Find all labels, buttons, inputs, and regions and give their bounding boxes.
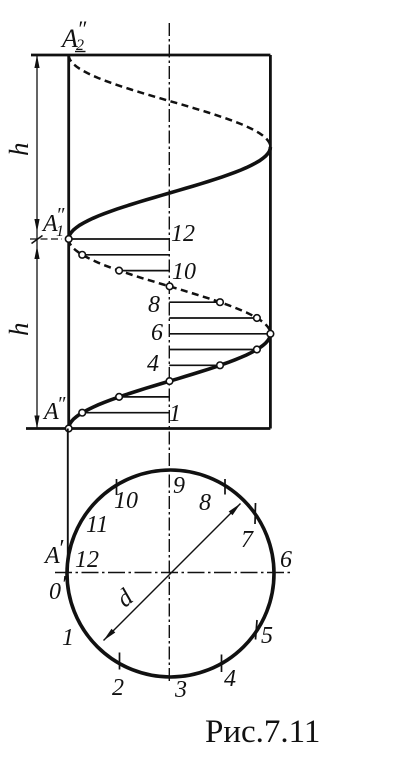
diameter d arrow [104,504,241,641]
svg-text:8: 8 [148,292,160,318]
arrowhead junction down [34,219,39,232]
projection line row 7 [169,317,257,319]
svg-text:1: 1 [62,625,74,651]
node point 12 [65,236,72,243]
arrowhead top [34,55,39,68]
dimension line h (left) [36,55,38,429]
top view circle [67,470,274,677]
svg-text:1: 1 [169,401,181,427]
svg-text:h: h [4,143,34,157]
projection line row 8 [169,301,220,303]
horizontal centerline of circle [55,572,293,574]
arrowhead junction up [34,246,39,259]
projection line row 5 [169,349,257,351]
division tick 2 [119,653,121,670]
projection line row 6 [169,333,270,335]
helix turn 1 back half (dashed) [69,239,271,334]
projection line row 1 [82,412,169,414]
svg-text:0: 0 [49,579,61,605]
svg-text:Рис.7.11: Рис.7.11 [205,714,320,750]
division tick 5 [256,620,258,640]
svg-text:7: 7 [241,527,254,553]
division tick 7 [254,503,257,524]
node point 11 [79,252,86,259]
svg-text:6: 6 [151,320,163,346]
helix turn 2 back half (dashed, top) [69,55,271,147]
d arrowhead lower-left [104,629,116,641]
division tick 8 [224,479,226,495]
arrowhead bottom [34,416,39,429]
svg-text:10: 10 [114,488,138,514]
projection line row 2 [119,396,169,398]
projection line row 12 [69,238,170,240]
svg-text:h: h [4,323,34,337]
svg-text:4: 4 [147,351,159,377]
d arrowhead upper-right [229,504,241,516]
projection line row 4 [169,364,220,366]
projection line row 11 [82,254,169,256]
svg-text:5: 5 [261,623,273,649]
node point 10 [116,267,123,274]
node point 7 [254,315,261,322]
svg-text:12: 12 [171,221,195,247]
projection line A''-A' (front view to top view) [67,429,69,574]
svg-text:3: 3 [174,677,187,703]
node point 5 [254,346,261,353]
junction slant tick [32,236,43,244]
cylinder outline (front view rectangle) [26,55,270,429]
node point 4 [217,362,224,369]
division tick 10 [116,479,118,495]
svg-text:2: 2 [112,675,124,701]
svg-text:″: ″ [56,204,65,226]
svg-text:6: 6 [280,547,292,573]
svg-text:4: 4 [224,666,236,692]
division tick 4 [221,655,223,673]
axis centerline (vertical dash-dot through both views) [168,23,170,683]
node point 8 [217,299,224,306]
node point 3 [166,378,173,385]
subscript underline [75,51,86,53]
svg-text:″: ″ [57,393,66,415]
svg-text:″: ″ [77,16,87,41]
svg-text:′: ′ [58,536,64,562]
svg-text:′: ′ [61,572,67,598]
svg-text:11: 11 [86,512,108,538]
helix turn 1 front half (solid) [69,334,271,429]
svg-text:12: 12 [75,547,99,573]
helix turn 2 front half (solid) [69,147,271,239]
node point 6 [267,331,274,338]
svg-text:8: 8 [199,490,211,516]
node point 1 [79,409,86,416]
projection line row 10 [119,270,169,272]
svg-text:10: 10 [172,259,196,285]
extension dash at A1 level [30,238,62,240]
node point 0 [65,425,72,432]
node point 2 [116,394,123,401]
svg-text:9: 9 [173,473,185,499]
node point 9 [166,283,173,290]
